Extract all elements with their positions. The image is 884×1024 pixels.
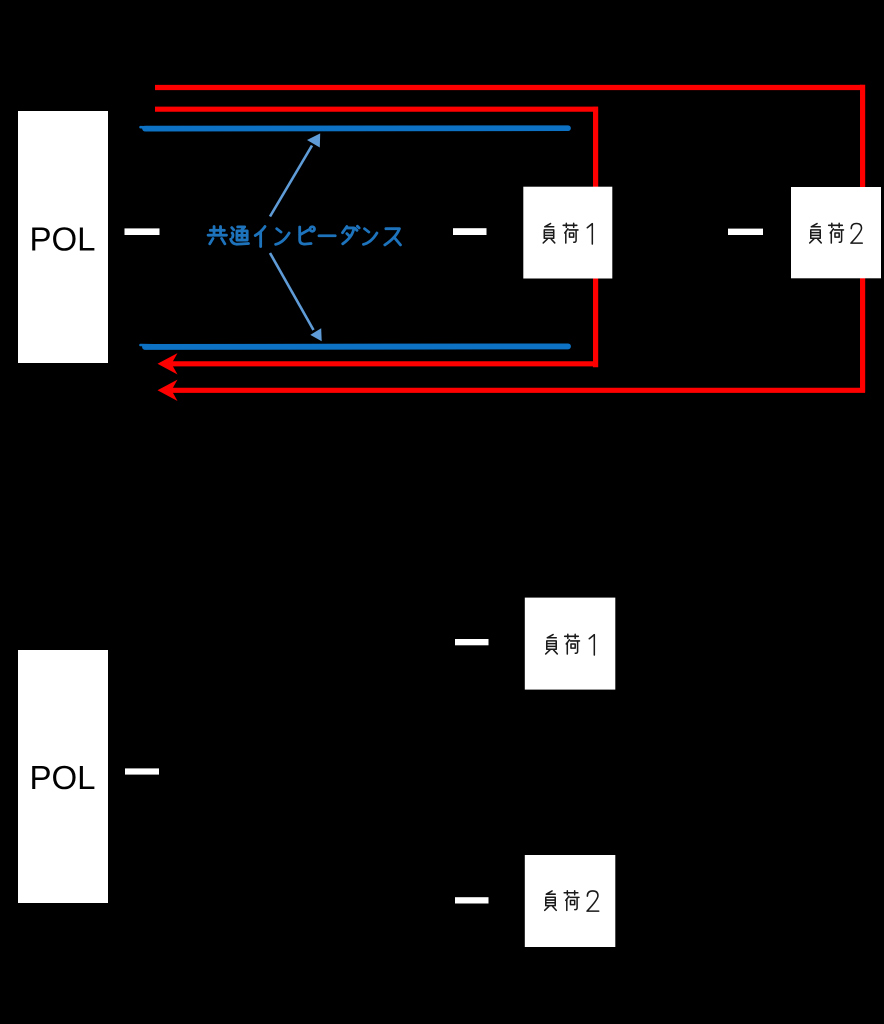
annotation arrow: to top common impedance line: [270, 146, 312, 217]
component: POL box (bottom diagram): [18, 650, 108, 903]
component: load1 box (bottom diagram): [525, 598, 616, 690]
wire: red inner loop, bottom return horizontal: [170, 361, 598, 366]
component: POL box (top diagram): [18, 111, 108, 363]
arrowhead: red outer return current: [158, 380, 178, 401]
annotation arrow: to bottom common impedance line: [270, 253, 314, 330]
svg-text:POL: POL: [29, 759, 95, 796]
component: load1 box (top diagram): [523, 187, 612, 279]
wire: red supply current out (inner loop to load1), top horizontal: [155, 107, 598, 112]
component: load2 box (top diagram): [791, 187, 881, 278]
wire: red outer loop, right vertical (passes behind load2 box): [860, 85, 865, 393]
label: 負荷2 (bottom): [545, 891, 599, 911]
wire: blue common impedance highlight, bottom: [145, 343, 568, 349]
wire: blue common impedance highlight, bottom lead-in taper: [141, 344, 161, 347]
node: wire break dash before load1 (bottom): [455, 639, 489, 645]
node: wire break dash before load2 (bottom): [455, 897, 489, 903]
wire: red supply current out (outer loop to load2), top horizontal: [155, 85, 863, 90]
label: 共通インピーダンス (common impedance, blue): [208, 226, 400, 246]
node: wire break dash at POL output (top): [125, 228, 160, 235]
component: load2 box (bottom diagram): [525, 855, 616, 947]
label: 負荷2 (top): [810, 223, 863, 243]
node: wire break dash before load1 (top): [453, 228, 487, 235]
arrowhead: red inner return current: [158, 353, 178, 374]
node: wire break dash at POL output (bottom): [125, 768, 159, 774]
svg-text:POL: POL: [29, 221, 95, 258]
node: wire break dash before load2 (top): [728, 229, 763, 235]
wire: blue common impedance highlight, top lead-in taper: [141, 126, 161, 129]
wire: blue common impedance highlight, top: [145, 125, 568, 131]
wire: red outer loop, bottom return horizontal: [170, 388, 865, 393]
label: 負荷1 (top): [543, 223, 592, 244]
wire: red inner loop, right vertical (passes behind load1 box): [593, 107, 598, 368]
label: 負荷1 (bottom): [546, 634, 595, 655]
